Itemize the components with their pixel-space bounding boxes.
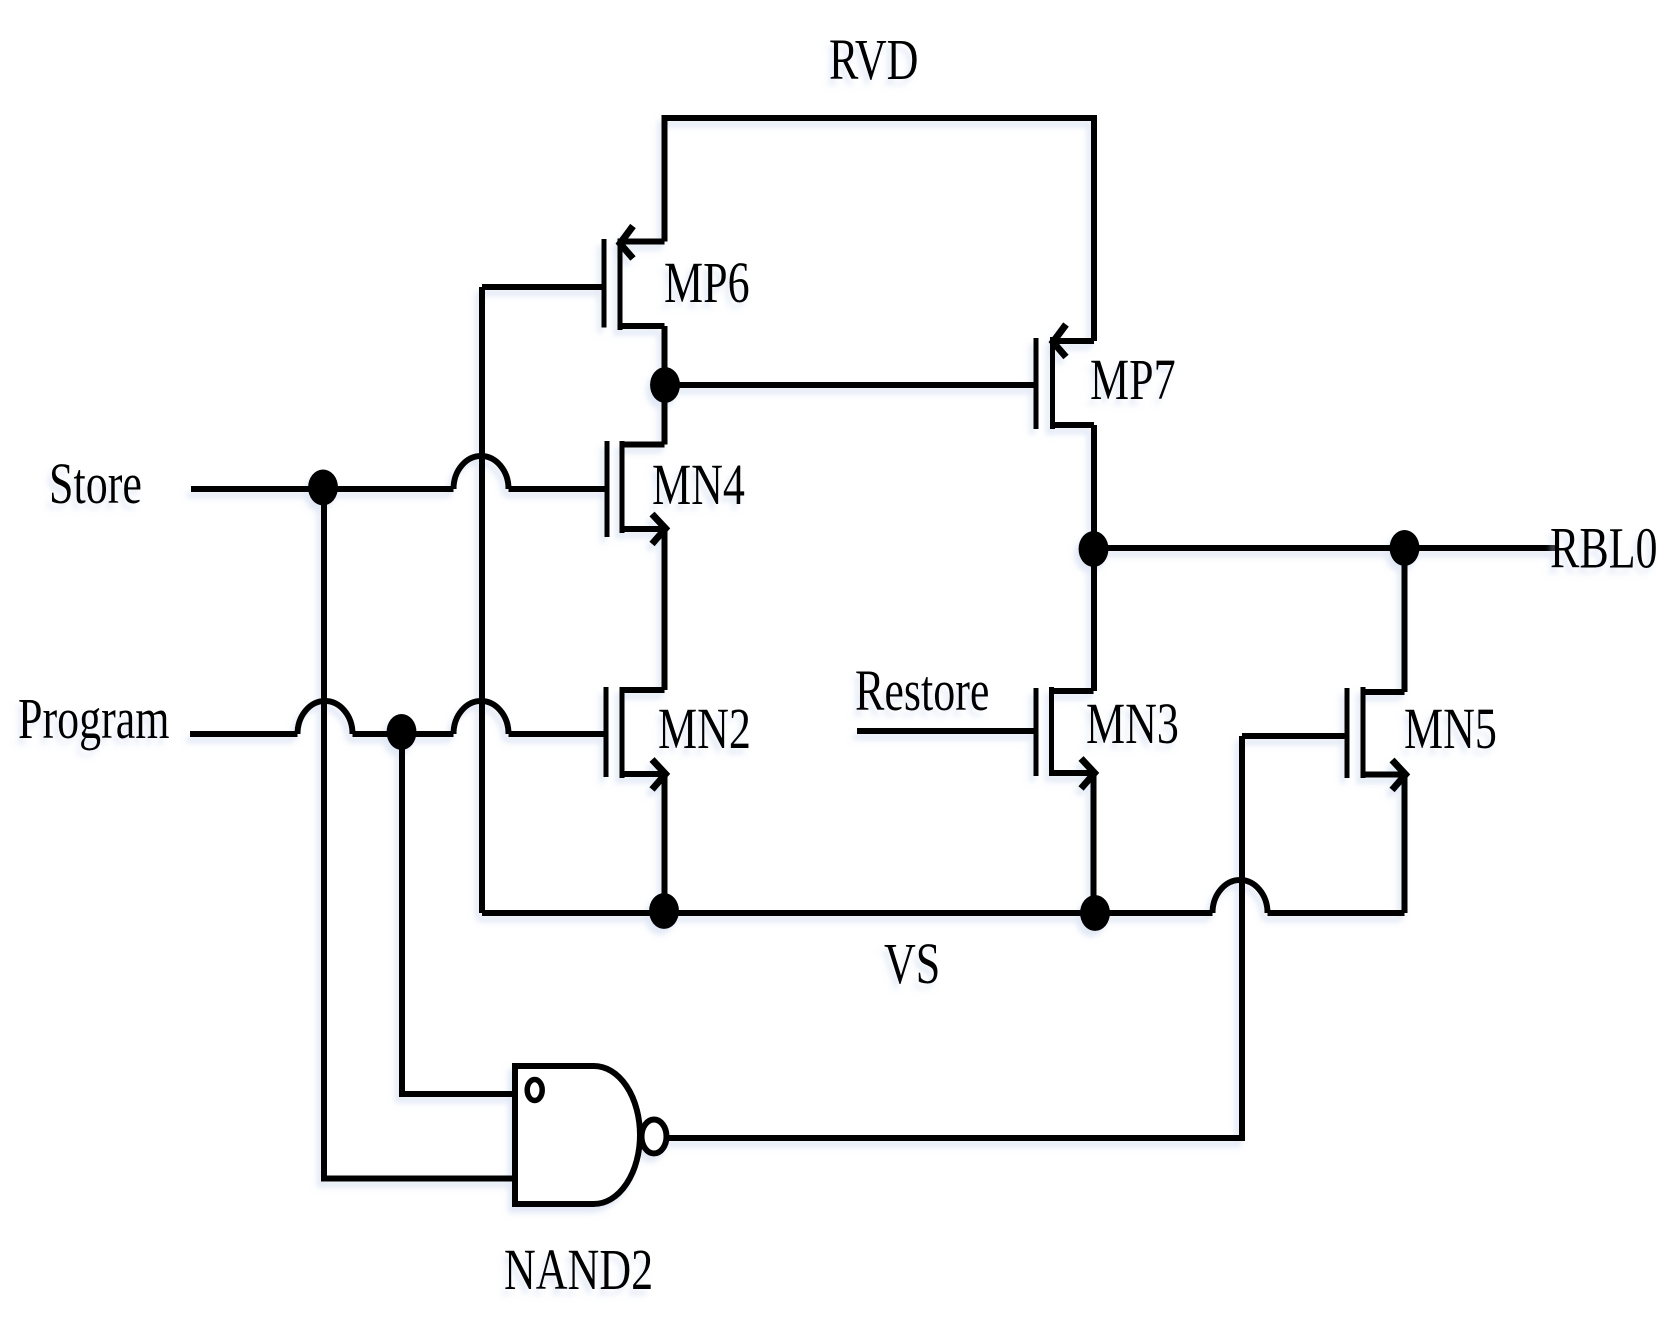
svg-text:RVD: RVD: [829, 28, 918, 92]
wire node B to MN3 drain: [1091, 549, 1097, 691]
transistor MP7: [1036, 325, 1094, 430]
svg-text:Restore: Restore: [855, 659, 989, 723]
wire MP6 drain to node A: [662, 326, 668, 385]
transistor MN5: [1347, 687, 1406, 790]
transistor MN3: [1036, 687, 1095, 789]
hop VS over NAND output wire: [1213, 880, 1268, 913]
svg-text:MN5: MN5: [1404, 697, 1497, 761]
wire net RBL0: [1094, 545, 1557, 551]
wire net VS rail: [482, 910, 1405, 916]
wire Program input: [190, 731, 604, 737]
wire MN2 source to VS: [662, 774, 668, 913]
wire RBL0 node to MN5 drain: [1402, 548, 1408, 692]
wire node A to MN4 drain: [662, 385, 668, 445]
wire Restore input: [857, 728, 1034, 734]
wire MN5 source to VS: [1402, 775, 1408, 914]
svg-text:MN4: MN4: [652, 453, 745, 517]
node B (MP7 drain / RBL0): [1079, 531, 1109, 567]
gate NAND2 output bubble: [642, 1120, 667, 1154]
node Store junction: [308, 470, 338, 506]
gate NAND2 body: [515, 1066, 640, 1204]
hop Store over MP6 gate wire: [454, 456, 509, 489]
node MN3 source on VS: [1080, 895, 1110, 931]
wire RVD rail (net RVD): [665, 118, 1095, 341]
node Program junction: [387, 714, 417, 750]
node A (MP6/MN4 drains, MP7 gate): [650, 367, 680, 403]
svg-text:Program: Program: [18, 687, 170, 751]
svg-text:NAND2: NAND2: [504, 1238, 653, 1302]
node MN2 source on VS: [649, 893, 679, 929]
wire Store drop to NAND input B: [324, 488, 512, 1179]
gate NAND2 inner input mark: [527, 1080, 542, 1101]
node RBL0 / MN5 drain junction: [1390, 530, 1420, 566]
wire NAND output to MN5 gate: [667, 736, 1242, 1138]
wire Program drop to NAND input A: [402, 732, 512, 1094]
wire MN5 gate lead: [1242, 733, 1345, 739]
transistor MN2: [606, 687, 666, 790]
transistor MN4: [607, 441, 666, 544]
svg-text:MP6: MP6: [664, 251, 750, 315]
svg-text:MN2: MN2: [658, 697, 751, 761]
wire node A to MP7 gate: [665, 382, 1034, 388]
wire MN4 source to MN2 drain: [662, 529, 668, 690]
wire MP6 gate drop: [479, 287, 485, 913]
svg-text:MP7: MP7: [1090, 348, 1176, 412]
svg-text:MN3: MN3: [1086, 692, 1179, 756]
transistor MP6: [482, 226, 665, 330]
hop Program over MP6 gate drop: [454, 701, 509, 734]
svg-text:VS: VS: [884, 932, 940, 996]
svg-text:RBL0: RBL0: [1550, 517, 1658, 581]
wire MN3 source to VS: [1091, 773, 1097, 913]
hop Program over Store drop: [298, 701, 353, 734]
wire MP7 drain to node B: [1091, 425, 1097, 548]
svg-text:Store: Store: [49, 452, 142, 516]
wire Store input: [191, 486, 605, 492]
